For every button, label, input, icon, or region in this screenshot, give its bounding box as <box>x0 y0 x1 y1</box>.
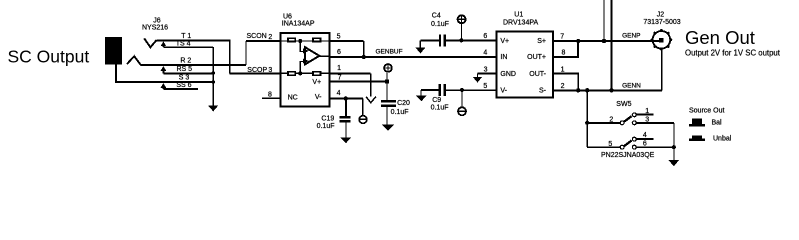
svg-text:73137-5003: 73137-5003 <box>643 19 680 26</box>
svg-text:V-: V- <box>500 88 507 95</box>
svg-text:2: 2 <box>561 83 565 90</box>
junction dot feedback/GENBUF <box>362 55 366 59</box>
svg-text:5: 5 <box>608 141 612 148</box>
junction dot U6 bottom node <box>298 71 302 75</box>
svg-text:C20: C20 <box>397 100 410 107</box>
wire SS <box>163 88 198 90</box>
wire TS ground vertical <box>212 47 214 105</box>
svg-text:DRV134PA: DRV134PA <box>503 20 538 27</box>
wire T vertical to SCOP <box>229 39 231 73</box>
power port V+ (U6) <box>384 64 392 82</box>
U6 bottom node vertical to op-amp input <box>300 62 304 74</box>
pin 1 ground stem <box>370 73 372 96</box>
svg-text:C9: C9 <box>432 97 441 104</box>
resistor R-b (U6 top-right) <box>313 38 320 41</box>
pin 4 stub (SW5) <box>636 138 653 140</box>
switch arrow TS <box>161 41 167 47</box>
U6 top node vertical to op-amp input <box>300 41 304 52</box>
input arrow + (U6) <box>303 48 309 53</box>
ground (jack) <box>208 105 218 111</box>
junction dot GENP riser <box>602 39 606 43</box>
svg-text:INA134AP: INA134AP <box>282 20 315 27</box>
wire S (sleeve) <box>163 81 213 83</box>
U6 internal bottom row wire <box>281 72 330 74</box>
svg-text:NYS216: NYS216 <box>142 24 168 31</box>
junction dot GENN riser <box>609 88 613 92</box>
power port V+ (U1 side) <box>458 15 466 40</box>
wire R (ring) <box>141 64 246 66</box>
junction dot GENN/switch <box>585 88 589 92</box>
svg-text:3: 3 <box>484 67 488 74</box>
svg-text:TS 4: TS 4 <box>176 41 191 48</box>
svg-text:2: 2 <box>609 116 613 123</box>
svg-text:S+: S+ <box>537 38 546 45</box>
junction dot TS/RS <box>212 71 216 75</box>
svg-text:1: 1 <box>337 65 341 72</box>
ground arrow open (U6 ref) <box>366 97 376 103</box>
SW5 pole contact A <box>620 121 624 125</box>
svg-text:V+: V+ <box>500 38 509 45</box>
SW5 lever B <box>624 141 632 147</box>
svg-text:GENP: GENP <box>622 33 640 40</box>
pin 8 wire OUT+ (U1) <box>553 41 578 57</box>
svg-text:4: 4 <box>643 132 647 139</box>
ground (SW5) <box>668 160 679 167</box>
svg-text:V-: V- <box>315 94 322 101</box>
svg-text:SCON: SCON <box>247 33 267 40</box>
pin 3 wire (SW5) <box>636 122 674 124</box>
svg-text:C19: C19 <box>321 116 334 123</box>
svg-text:7: 7 <box>338 74 342 81</box>
SW5 throw contact 6 <box>632 145 636 149</box>
wire TS <box>163 46 213 48</box>
svg-text:NC: NC <box>288 95 298 102</box>
pin 7 wire (U6 V+) <box>330 81 387 83</box>
svg-text:5: 5 <box>483 83 487 90</box>
svg-text:S-: S- <box>539 88 547 95</box>
svg-text:Unbal: Unbal <box>713 136 732 143</box>
J2 shield stem <box>661 49 663 91</box>
svg-text:SW5: SW5 <box>616 101 631 108</box>
svg-text:OUT-: OUT- <box>529 71 546 78</box>
svg-text:GENBUF: GENBUF <box>376 49 403 56</box>
capacitor C4 <box>420 34 496 46</box>
wire SCOP <box>230 72 281 74</box>
resistor R-c (U6 bottom-left) <box>288 72 295 76</box>
power port V- (U1 side) <box>458 90 466 115</box>
svg-text:Bal: Bal <box>712 120 723 127</box>
junction dot U6 top node <box>298 39 302 43</box>
pin 6 wire (SW5) <box>636 146 674 148</box>
svg-text:4: 4 <box>337 90 341 97</box>
svg-text:7: 7 <box>560 33 564 40</box>
svg-text:8: 8 <box>268 91 272 98</box>
ground arrow (U1 GND) <box>473 73 482 82</box>
pin 5 wire (U6 sense) <box>330 40 364 42</box>
svg-text:0.1uF: 0.1uF <box>317 123 335 130</box>
svg-text:V+: V+ <box>312 79 321 86</box>
svg-text:Output 2V for 1V SC output: Output 2V for 1V SC output <box>685 49 781 58</box>
legend icon Unbal <box>689 136 705 141</box>
junction dot C9/V- <box>460 88 464 92</box>
junction dot SW5 tee <box>585 121 589 125</box>
input arrow - (U6) <box>303 58 309 63</box>
driver U1 labels <box>503 12 538 27</box>
svg-text:SS 6: SS 6 <box>176 82 191 89</box>
svg-text:PN22SJNA03QE: PN22SJNA03QE <box>601 152 655 159</box>
svg-text:3: 3 <box>268 67 272 74</box>
SW5 left riser <box>586 90 588 147</box>
junction dot OUT-/S- <box>576 88 580 92</box>
connector J6 labels <box>142 18 168 32</box>
svg-text:U1: U1 <box>514 12 523 19</box>
svg-text:GND: GND <box>500 71 516 78</box>
svg-text:0.1uF: 0.1uF <box>431 105 449 112</box>
switch arrow RS <box>161 66 167 73</box>
wire R vertical up to SCON <box>245 41 247 65</box>
svg-text:6: 6 <box>643 141 647 148</box>
pin 5 feedback vertical <box>363 41 365 57</box>
switch arrow SS <box>161 83 167 89</box>
svg-text:IN: IN <box>500 54 507 61</box>
pin 1 stub (SW5) <box>636 113 653 115</box>
driver U1 box <box>497 32 553 98</box>
connector J2 labels <box>643 11 680 26</box>
pin 2 wire S- (U1) / GENN <box>553 89 662 91</box>
SW5 lever A <box>624 116 632 122</box>
wire SCON <box>246 40 281 42</box>
op-amp output wire <box>319 55 330 57</box>
svg-text:0.1uF: 0.1uF <box>391 109 409 116</box>
wire GENBUF <box>330 56 497 58</box>
ground (C4) <box>415 40 425 53</box>
junction dot pin6/ground <box>672 145 676 149</box>
op-amp U6 box <box>281 33 330 107</box>
svg-text:Gen Out: Gen Out <box>685 27 755 48</box>
pin 1 wire (U6 ref) <box>330 72 371 74</box>
resistor R-a (U6 top-left) <box>288 38 295 41</box>
capacitor C19 <box>340 98 351 137</box>
wire RS <box>163 72 213 74</box>
jack J6 tip contact <box>144 38 157 47</box>
riser wire 1 (top edge) <box>603 0 605 41</box>
SW5 throw contact 1 <box>632 113 636 117</box>
junction dot S+/OUT+ <box>576 39 580 43</box>
svg-text:J2: J2 <box>657 11 665 18</box>
connector J2 BNC <box>651 29 673 90</box>
jack J6 ring contact <box>127 56 141 65</box>
U1 GND pin wire <box>478 72 497 74</box>
SW5 pole wire 5 <box>587 146 620 148</box>
wire T (tip) <box>157 39 230 41</box>
svg-text:6: 6 <box>483 33 487 40</box>
svg-text:SCOP: SCOP <box>247 67 267 74</box>
ground (C9) <box>416 90 427 101</box>
svg-text:R 2: R 2 <box>180 57 191 64</box>
svg-text:S 3: S 3 <box>179 74 190 81</box>
svg-text:C4: C4 <box>432 13 441 20</box>
svg-text:6: 6 <box>337 49 341 56</box>
junction dot pin4/C19 <box>344 96 348 100</box>
svg-text:8: 8 <box>562 50 566 57</box>
svg-text:T 1: T 1 <box>181 33 191 40</box>
jack J6 body <box>105 37 122 65</box>
pin 4 wire (U6 V-) <box>330 97 363 99</box>
resistor R-d (U6 bottom-right) <box>313 72 320 76</box>
svg-text:Source Out: Source Out <box>689 108 724 115</box>
SW5 right riser to ground <box>673 123 675 160</box>
capacitor C9 <box>421 84 497 96</box>
riser wire 2 (top edge) <box>610 0 612 90</box>
junction dot pin7/C20 <box>385 80 389 84</box>
SW5 throw contact 3 <box>632 121 636 125</box>
capacitor C20 <box>381 82 396 125</box>
svg-text:3: 3 <box>645 117 649 124</box>
svg-text:0.1uF: 0.1uF <box>431 21 449 28</box>
jack J6 sleeve wire <box>116 64 163 82</box>
svg-text:U6: U6 <box>283 13 292 20</box>
legend icon Bal <box>689 119 705 127</box>
pin 8 stub (U6 NC) <box>262 97 281 99</box>
svg-text:RS 5: RS 5 <box>176 66 192 73</box>
svg-text:1: 1 <box>561 67 565 74</box>
SW5 pole contact B <box>620 145 624 149</box>
SW5 pole wire 2 <box>587 122 620 124</box>
pin 1 wire OUT- (U1) <box>553 73 578 90</box>
svg-text:SC Output: SC Output <box>8 47 90 67</box>
svg-text:1: 1 <box>645 108 649 115</box>
op-amp U6 labels <box>282 13 315 27</box>
junction dot TS/S <box>212 80 216 84</box>
junction dot C4/V+ <box>459 38 463 42</box>
svg-text:4: 4 <box>483 50 487 57</box>
power port V- (C19 side) <box>359 98 367 123</box>
SW5 throw contact 4 <box>632 137 636 141</box>
U6 internal top row wire <box>281 40 330 42</box>
svg-text:OUT+: OUT+ <box>527 54 546 61</box>
ground (C19) <box>340 137 351 143</box>
svg-text:GENN: GENN <box>622 83 641 90</box>
op-amp triangle U6 <box>305 47 319 64</box>
pin 7 wire S+ (U1) <box>553 40 660 42</box>
svg-text:5: 5 <box>337 34 341 41</box>
svg-text:2: 2 <box>268 34 272 41</box>
ground (C20) <box>382 124 395 130</box>
